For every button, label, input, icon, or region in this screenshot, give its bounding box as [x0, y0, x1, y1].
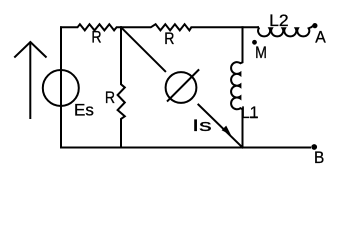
svg-text:R: R	[105, 88, 115, 107]
svg-text:Es: Es	[74, 101, 94, 120]
svg-text:L2: L2	[269, 11, 289, 30]
svg-text:Is: Is	[192, 116, 212, 135]
svg-text:M: M	[255, 43, 267, 62]
svg-text:R: R	[164, 29, 174, 48]
svg-text:L1: L1	[241, 103, 259, 122]
svg-text:R: R	[91, 28, 101, 47]
svg-text:B: B	[314, 148, 324, 167]
svg-text:A: A	[315, 27, 326, 46]
